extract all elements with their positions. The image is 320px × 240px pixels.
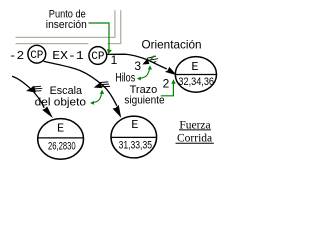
wall multiline inner gray line	[16, 10, 115, 37]
E1 midline	[38, 137, 84, 139]
svg-text:siguiente: siguiente	[124, 94, 164, 106]
leader curve C (to tag E3)	[107, 54, 167, 69]
tag circle E2	[111, 116, 157, 158]
svg-text:inserción: inserción	[46, 19, 87, 31]
svg-text:E: E	[57, 121, 64, 135]
tag circle E3	[175, 57, 216, 93]
leader (green) from Punto de inserción	[89, 23, 110, 50]
svg-text:31,33,35: 31,33,35	[119, 139, 152, 151]
sketch mark on curve A	[28, 86, 43, 92]
green stub from Orientación	[150, 56, 155, 61]
svg-text:Hilos: Hilos	[115, 73, 135, 85]
wall multiline outer gray line	[16, 10, 121, 43]
tag circle E1	[38, 119, 84, 160]
sketch mark on curve C	[144, 56, 159, 64]
green double arrow at Hilos	[140, 67, 150, 78]
svg-text:32,34,36: 32,34,36	[178, 76, 214, 88]
svg-text:-2: -2	[9, 49, 24, 63]
svg-text:26,2830: 26,2830	[48, 140, 76, 152]
svg-text:del objeto: del objeto	[35, 97, 86, 109]
green double arrow at Escala	[93, 92, 102, 102]
arrowhead B	[113, 105, 122, 118]
sketch mark on curve B	[95, 82, 110, 88]
circle CP2	[89, 47, 107, 65]
E3 midline	[175, 74, 216, 76]
svg-text:2: 2	[163, 76, 170, 90]
svg-text:Escala: Escala	[50, 85, 83, 97]
svg-text:CP: CP	[91, 51, 105, 63]
arrowhead A	[42, 107, 53, 119]
leader curve B (to tag E2)	[44, 61, 117, 106]
svg-text:Orientación: Orientación	[142, 37, 202, 51]
green leader from Trazo siguiente	[161, 83, 174, 96]
svg-text:EX-1: EX-1	[52, 49, 84, 63]
E2 midline	[111, 136, 157, 138]
svg-text:E: E	[191, 60, 198, 74]
arrowhead C	[165, 67, 177, 75]
svg-text:CP: CP	[30, 50, 44, 62]
svg-text:3: 3	[134, 59, 141, 73]
circle CP1	[28, 45, 46, 63]
leader curve A (to tag E1)	[12, 76, 44, 108]
svg-text:E: E	[131, 118, 138, 132]
green arrowhead at CP2	[107, 49, 112, 54]
